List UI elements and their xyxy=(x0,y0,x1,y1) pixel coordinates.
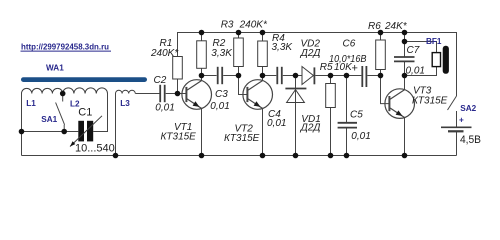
battery GB 4,5V xyxy=(441,127,472,131)
resistor R2 3,3K xyxy=(197,41,207,69)
wire speaker bottom xyxy=(405,67,437,76)
wire R3 bottom lead xyxy=(238,67,240,76)
wire VT2 collector to C4 xyxy=(263,75,277,77)
node VD1 ground xyxy=(293,153,299,159)
wire bottom rail ground xyxy=(22,155,457,157)
wire L3 to ground xyxy=(115,94,117,156)
switch SA1 xyxy=(56,94,65,132)
wire top rail V+ xyxy=(178,33,457,97)
svg-text:C1: C1 xyxy=(78,106,92,118)
svg-text:WA1: WA1 xyxy=(46,63,64,72)
node R3 top xyxy=(236,30,242,36)
svg-text:КТ315Е: КТ315Е xyxy=(412,95,448,106)
wire C2 to VT1 base xyxy=(166,93,187,95)
node VT1 collector xyxy=(199,73,205,79)
svg-text:КТ315Е: КТ315Е xyxy=(161,132,197,143)
wire C6 to VT3 base node xyxy=(367,75,380,77)
svg-text:4,5В: 4,5В xyxy=(460,134,481,146)
svg-text:SA1: SA1 xyxy=(41,115,57,124)
svg-text:BF1: BF1 xyxy=(426,37,442,46)
node R5 top xyxy=(328,73,334,79)
wire VT1 emitter lead xyxy=(201,108,203,155)
wire VT3 collector lead xyxy=(404,76,406,90)
wire C5 top lead xyxy=(346,76,348,123)
wire R5 top lead xyxy=(330,76,332,84)
wire battery to ground rail xyxy=(456,131,458,155)
svg-text:0,01: 0,01 xyxy=(406,65,425,76)
svg-text:C2: C2 xyxy=(154,75,167,86)
node VT1 base / R1 xyxy=(175,91,181,97)
node R5 ground xyxy=(328,153,334,159)
wire VT2 collector lead xyxy=(262,76,264,82)
svg-text:0,01: 0,01 xyxy=(210,101,229,112)
switch SA2 xyxy=(448,96,457,110)
wire C7 bottom lead xyxy=(404,61,406,75)
svg-text:10...540: 10...540 xyxy=(75,143,115,155)
wire R6 bottom lead xyxy=(380,70,382,76)
svg-text:L3: L3 xyxy=(120,99,130,108)
svg-text:C7: C7 xyxy=(407,45,420,56)
wire R6 top lead xyxy=(380,33,382,41)
node VT2 base xyxy=(236,73,242,79)
wire R4 bottom lead xyxy=(262,67,264,76)
wire VD1 vertical xyxy=(295,76,297,156)
wire VT1 collector lead xyxy=(201,76,203,82)
resistor R3 240K* xyxy=(234,38,244,67)
capacitor C7 0,01 xyxy=(394,57,415,61)
node L1-L2 tap xyxy=(60,91,66,97)
svg-text:R6: R6 xyxy=(368,21,381,32)
node SA1 bottom xyxy=(61,129,67,135)
wire R1 bottom lead xyxy=(177,79,179,94)
wire C7 top lead xyxy=(404,33,406,58)
svg-text:R3: R3 xyxy=(221,20,234,31)
wire SA2 to battery xyxy=(456,111,458,127)
wire tank left vertical xyxy=(21,94,23,156)
svg-text:C3: C3 xyxy=(215,89,228,100)
wire R3 top lead xyxy=(238,33,240,39)
diode VD1 vertical xyxy=(285,89,306,103)
node VT1 emitter ground xyxy=(199,153,205,159)
wire C5 bottom lead xyxy=(346,128,348,156)
wire R2 top lead xyxy=(201,33,203,41)
node C5 top xyxy=(344,73,350,79)
svg-text:SA2: SA2 xyxy=(460,104,476,113)
svg-text:240K*: 240K* xyxy=(150,48,179,59)
svg-text:10,0*16В: 10,0*16В xyxy=(329,54,367,65)
wire VD2 cathode to C6 xyxy=(315,75,361,77)
wire VT3 emitter lead xyxy=(404,117,406,155)
svg-text:КТ315Е: КТ315Е xyxy=(224,133,260,144)
capacitor C5 0,01 xyxy=(338,123,357,128)
inductor L1 xyxy=(22,88,63,93)
svg-text:0,01: 0,01 xyxy=(155,103,174,114)
wire VT2 base L xyxy=(239,76,248,95)
svg-text:3,3K: 3,3K xyxy=(272,42,294,53)
inductor L3 xyxy=(116,90,136,93)
wire C1 left xyxy=(22,131,79,133)
node VT2 collector xyxy=(260,73,266,79)
transistor VT3 KT315E xyxy=(385,89,415,119)
transistor VT2 KT315E xyxy=(243,80,273,110)
svg-text:Д2Д: Д2Д xyxy=(300,48,321,59)
node VT2 emitter ground xyxy=(260,153,266,159)
svg-text:240K*: 240K* xyxy=(239,20,268,31)
svg-text:L1: L1 xyxy=(26,99,36,108)
node VT3 collector xyxy=(402,73,408,79)
resistor R4 3,3K xyxy=(258,41,268,67)
svg-text:3,3K: 3,3K xyxy=(211,48,233,59)
svg-text:C5: C5 xyxy=(350,110,363,121)
node R4 top xyxy=(260,30,266,36)
wire C3 to VT2 base node xyxy=(223,75,238,77)
capacitor C4 0,01 xyxy=(277,67,282,84)
node VD1-VD2 anode xyxy=(293,73,299,79)
capacitor C3 0,01 xyxy=(218,67,223,84)
svg-text:Д2Д: Д2Д xyxy=(300,122,321,133)
svg-text:+: + xyxy=(352,63,358,75)
capacitor C2 0,01 xyxy=(160,85,165,102)
diode VD2 horizontal xyxy=(302,67,314,85)
node speaker top branch xyxy=(402,39,408,45)
resistor R1 240K* xyxy=(173,57,183,80)
node C7 top xyxy=(402,30,408,36)
transistor VT1 KT315E xyxy=(182,80,212,110)
wire R5 bottom lead xyxy=(330,108,332,156)
node VT3 base xyxy=(378,73,384,79)
wire R2 bottom lead xyxy=(201,68,203,75)
antenna WA1 ferrite rod xyxy=(21,77,147,82)
wire R4 top lead xyxy=(262,33,264,42)
svg-text:+: + xyxy=(459,115,464,124)
svg-text:24K*: 24K* xyxy=(384,21,408,32)
link underline xyxy=(21,50,112,52)
wire C1 right to L2 end xyxy=(93,94,107,132)
speaker BF1 xyxy=(432,53,440,67)
wire C4 to detector node xyxy=(283,75,302,77)
node L3 ground xyxy=(113,153,119,159)
inductor L2 xyxy=(63,88,108,94)
node R6 top xyxy=(378,30,384,36)
wire speaker top xyxy=(405,42,437,53)
svg-text:0,01: 0,01 xyxy=(351,131,370,142)
node C1 left corner xyxy=(19,129,25,135)
wire VT1 collector to C3 xyxy=(202,75,217,77)
capacitor C1 variable 10...540 xyxy=(78,121,93,142)
svg-text:0,01: 0,01 xyxy=(267,118,286,129)
capacitor C6 electrolytic 10,0x16V xyxy=(362,66,366,87)
resistor R6 24K* xyxy=(376,40,386,70)
wire VT3 base L xyxy=(381,76,390,104)
node C5 ground xyxy=(344,153,350,159)
svg-text:http://299792458.3dn.ru: http://299792458.3dn.ru xyxy=(21,43,109,52)
wire VT2 emitter lead xyxy=(262,108,264,155)
resistor R5 10K xyxy=(326,84,336,108)
wire L3 to C2 xyxy=(135,93,159,95)
svg-text:C6: C6 xyxy=(343,39,356,50)
node R2 top xyxy=(199,30,205,36)
node VT3 emitter ground xyxy=(402,153,408,159)
